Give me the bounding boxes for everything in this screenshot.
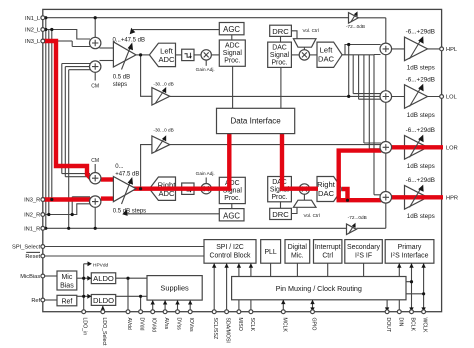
wire IN1_R rise to c2R (94, 207, 96, 228)
vol ctrl multiplier right (299, 184, 309, 194)
wire LOL mixer to amp and pin (392, 96, 442, 98)
arrowhead SCLK up (249, 263, 253, 267)
svg-text:-6...+29dB: -6...+29dB (406, 29, 435, 36)
arrowhead GPIO down (310, 307, 314, 311)
svg-text:Supplies: Supplies (160, 283, 189, 292)
svg-text:Ref: Ref (31, 298, 40, 304)
mix amp1 left -30dB (152, 87, 170, 105)
wire LDO_in rail to HPVdd (84, 264, 88, 312)
wire MISO pin to SPI block (238, 263, 240, 311)
pin label Reset with overline (25, 252, 40, 260)
PLL box (261, 240, 281, 264)
junction dot DVdd tap (139, 295, 142, 298)
bypass volume amp right -72dB (347, 223, 357, 235)
junction dot IN1_R pga tap (94, 227, 97, 230)
svg-text:DVdd: DVdd (139, 318, 145, 331)
wire bypass amp R out (356, 227, 385, 229)
vol ctrl mux right (293, 200, 316, 207)
pin terminal IN2_R (41, 213, 45, 217)
wire SDA pin to SPI block (226, 263, 228, 311)
input mixer c1R (90, 173, 101, 184)
junction dot WCLK stub (422, 292, 425, 295)
pin terminal AVdd (126, 310, 130, 314)
svg-text:DIN: DIN (397, 318, 403, 327)
wire mixer bus v5 (369, 55, 380, 149)
svg-text:LOL: LOL (446, 95, 457, 101)
LOR output amp gain arrow (410, 135, 424, 158)
wire IOVdd pin (152, 300, 154, 311)
junction dot IN2_L bus2 (50, 28, 53, 31)
arrowhead SDA up (224, 263, 228, 267)
wire CM stub left (94, 72, 96, 80)
wire Reset (43, 255, 204, 257)
output mixer LOL (380, 91, 392, 103)
wire bus vertical B (48, 30, 50, 215)
arrowhead DVss up (175, 300, 179, 304)
wire multiplier to ADC signal proc (211, 54, 219, 56)
pin terminal Reset (41, 254, 45, 258)
svg-text:LOR: LOR (446, 146, 458, 152)
wire HPL mixer to amp and pin (392, 48, 442, 50)
PGA right triangle (113, 177, 136, 205)
output mixer LOR (380, 142, 392, 154)
pin terminal HPL (440, 47, 444, 51)
Data Interface box (217, 108, 295, 133)
wire IN3_L thin extension (58, 40, 72, 42)
pin terminal IN1_L (41, 16, 45, 20)
pin terminal MCLK (281, 310, 285, 314)
DAC Right pentagon (317, 177, 342, 202)
pin terminal LDO_Select (101, 310, 105, 314)
wire cross vertical E to c2L/c1R (65, 67, 90, 177)
wire Ref pin to block (43, 299, 57, 301)
LOR output amp triangle (405, 136, 428, 160)
wire DVss pin (177, 300, 179, 311)
Pin Muxing Clock Routing box (232, 277, 406, 300)
svg-text:Vol. Ctrl: Vol. Ctrl (303, 28, 319, 33)
junction dot IN2_R bus (47, 213, 50, 216)
DRC left box (270, 25, 292, 36)
svg-text:Proc.: Proc. (224, 195, 240, 202)
svg-text:DVss: DVss (176, 318, 182, 331)
DAC Left pentagon (317, 42, 342, 67)
svg-text:MicBias: MicBias (20, 274, 40, 280)
wire mixer bus v2 (353, 55, 380, 94)
svg-text:IN2_L: IN2_L (25, 28, 40, 34)
junction dot IN2_R tap (71, 213, 74, 216)
wire DRC-L to vol ctrl mux (291, 31, 297, 39)
wire tap to mix amp2 (141, 145, 152, 189)
svg-text:1dB steps: 1dB steps (407, 65, 435, 72)
arrowhead GPIO up (310, 300, 314, 304)
svg-text:IN3_L: IN3_L (25, 39, 40, 45)
wire decimator to gain multiplier (194, 54, 201, 56)
junction dot LDO rail ALDO (82, 277, 85, 280)
svg-text:steps: steps (113, 82, 127, 88)
wire SCLK pin to SPI block (250, 263, 252, 311)
pin terminal DIN (397, 310, 401, 314)
svg-text:Bias: Bias (60, 282, 74, 289)
ALDO box (91, 273, 115, 284)
svg-text:LDO_Select: LDO_Select (101, 318, 107, 347)
HPR output amp gain arrow (410, 185, 424, 208)
wire secondary i2s stub (363, 263, 365, 276)
svg-text:Right: Right (317, 180, 336, 189)
svg-text:I2S Interface: I2S Interface (391, 252, 429, 260)
svg-text:HPVdd: HPVdd (93, 263, 109, 269)
arrowhead AVss up (163, 300, 167, 304)
svg-text:Primary: Primary (398, 244, 422, 251)
wire cross vertical G c1L lower input (72, 41, 90, 215)
AGC right box (219, 209, 244, 221)
wire mixer bus v1 (348, 45, 350, 97)
AGC-L feedback arrowhead (130, 28, 136, 35)
svg-text:1dB steps: 1dB steps (407, 163, 435, 170)
svg-text:DAC: DAC (272, 179, 287, 186)
svg-text:Gain Adj.: Gain Adj. (196, 67, 215, 72)
svg-text:HPR: HPR (446, 196, 458, 202)
arrowhead SCL up (212, 263, 216, 267)
mix amp2 right -30dB (152, 135, 170, 153)
wire CM stub right (94, 164, 96, 173)
wire IN2_L to sum c1L (43, 30, 90, 40)
pin terminal IOVdd (151, 310, 155, 314)
wire PGA-L output (134, 54, 149, 56)
PGA left triangle (113, 42, 136, 70)
pin terminal IN3_R (41, 198, 45, 202)
svg-text:IN3_R: IN3_R (24, 198, 40, 204)
junction dot IN1_L bus (44, 16, 47, 19)
wire SCL pin to SPI block (213, 263, 215, 311)
svg-text:Vol. Ctrl: Vol. Ctrl (304, 213, 320, 218)
bypass volume amp left -72dB (349, 11, 359, 23)
ADC signal proc left box (219, 40, 245, 66)
svg-text:SPI_Select: SPI_Select (12, 245, 41, 251)
svg-text:Mic.: Mic. (291, 252, 304, 259)
vol ctrl multiplier left (299, 50, 309, 60)
svg-text:Gain Adj.: Gain Adj. (196, 171, 215, 176)
wire MCLK pin (282, 300, 284, 312)
arrowhead DLDO input (87, 294, 91, 299)
svg-text:SCLK: SCLK (249, 318, 255, 332)
svg-text:Ref: Ref (61, 298, 72, 305)
svg-text:Digital: Digital (288, 244, 308, 251)
wire Left ADC to decimator (176, 54, 182, 56)
arrowhead WCLK down (421, 307, 425, 311)
red path IN3_R into c2R (43, 197, 92, 201)
vol ctrl mux left (293, 39, 316, 48)
svg-text:0...+47.5 dB: 0...+47.5 dB (113, 38, 146, 44)
wire IOVss pin (189, 300, 191, 311)
svg-text:DAC: DAC (272, 45, 287, 52)
svg-text:DLDO: DLDO (93, 296, 114, 305)
wire Ref to LDO rail (77, 295, 92, 297)
pin terminal SDA (225, 310, 229, 314)
wire mix amp1 out to LOL mixer (170, 95, 380, 97)
svg-text:WCLK: WCLK (422, 318, 428, 334)
junction dot PGA-R output on red (139, 187, 142, 190)
gain adj multiplier left (201, 50, 211, 60)
wire Left DAC out up to HPL mixer (342, 45, 381, 55)
svg-text:PLL: PLL (264, 249, 276, 256)
AGC-R feedback arrowhead (122, 210, 127, 216)
Primary I2S Interface box (385, 240, 434, 264)
output mixer HPL (380, 43, 392, 55)
wire digital mic stub (296, 263, 298, 276)
svg-text:IOVdd: IOVdd (151, 318, 157, 333)
red path IN3_L to right input mixer c1R (43, 41, 91, 179)
svg-text:-72...0dB: -72...0dB (346, 24, 365, 29)
wire interrupt stub (327, 263, 329, 276)
svg-text:SCL/SSZ: SCL/SSZ (212, 318, 218, 340)
junction dot BCLK stub (410, 280, 413, 283)
ADC Left pentagon (149, 43, 175, 66)
pin terminal IN1_R (41, 226, 45, 230)
wire bus vertical C (51, 30, 53, 200)
wire DRC-L to DAC proc L (280, 36, 282, 42)
input mixer c2L (90, 61, 101, 72)
svg-text:AVdd: AVdd (126, 318, 132, 330)
DAC signal proc left box (268, 42, 292, 67)
wire MicBias to LDO rail (77, 277, 92, 279)
wire c2L to PGA-L (100, 60, 114, 62)
DRC right box (270, 208, 292, 219)
svg-text:DAC: DAC (318, 54, 335, 63)
output mixer HPR (380, 192, 392, 204)
gain adj multiplier right (201, 184, 211, 194)
junction dot AVdd tap (126, 277, 129, 280)
wire IN2_R to sum c2R (43, 204, 90, 215)
pin terminal BCLK (410, 310, 414, 314)
wire IN1_R to bypass amp R (43, 227, 347, 229)
SPI I2C control block box (204, 240, 256, 264)
wire AGC-R gain feedback (127, 213, 219, 215)
arrowhead MCLK up (281, 300, 285, 304)
junction dot IN1_R bus1 (44, 227, 47, 230)
svg-text:DAC: DAC (318, 189, 335, 198)
svg-text:Reset: Reset (25, 254, 40, 260)
svg-text:AGC: AGC (223, 25, 240, 34)
wire AVss pin (164, 300, 166, 311)
pin terminal AVss (163, 310, 167, 314)
svg-text:-6...+29dB: -6...+29dB (406, 127, 435, 134)
svg-text:Left: Left (320, 46, 334, 55)
svg-text:Proc.: Proc. (271, 60, 287, 67)
wire mixer bus v6 HPL to HPR (374, 55, 381, 195)
wire WCLK pin to primary i2s (406, 263, 424, 311)
wire GPIO pin (312, 300, 314, 312)
red path HPR mixer to HPR pin (391, 195, 443, 199)
red path data interface down to DAC-R chain (282, 134, 318, 189)
wire LDO_Select (102, 306, 104, 312)
pin terminal SCL (212, 310, 216, 314)
red path to HPR and LOR mixers (339, 151, 382, 201)
Ref box (57, 295, 77, 306)
svg-text:Signal: Signal (270, 52, 290, 59)
svg-text:+47.5 dB: +47.5 dB (115, 171, 139, 177)
svg-text:ADC: ADC (158, 55, 175, 64)
pin terminal MISO (237, 310, 241, 314)
svg-text:0.5 dB steps: 0.5 dB steps (113, 208, 146, 214)
wire PLL stub (270, 263, 272, 276)
wire AGC-L gain feedback (133, 29, 219, 31)
wire ALDO out to supplies (116, 278, 147, 312)
red path Right DAC output fork down (342, 189, 348, 200)
DAC signal proc right box (268, 177, 292, 202)
junction dot IN3_R bus (50, 198, 53, 201)
wire IN1_L to bypass amp (43, 17, 349, 19)
Digital Mic box (285, 240, 310, 264)
svg-text:Secondary: Secondary (347, 244, 380, 251)
arrowhead LDO_Select up (101, 306, 105, 311)
AGC left box (219, 23, 244, 35)
svg-text:1dB steps: 1dB steps (407, 112, 435, 119)
svg-text:IN1_L: IN1_L (25, 16, 40, 22)
arrowhead WCLK up (421, 263, 425, 267)
pin terminal IN2_L (41, 28, 45, 32)
wire mux R to multiplier R (303, 195, 305, 201)
svg-text:-30...0 dB: -30...0 dB (153, 128, 173, 133)
pin terminal SCLK (249, 310, 253, 314)
svg-text:Proc.: Proc. (224, 58, 240, 65)
junction dot DAC-L mixer bus (347, 43, 350, 46)
Interrupt Ctrl box (314, 240, 342, 264)
svg-text:ADC: ADC (225, 43, 240, 50)
pin terminal DVss (176, 310, 180, 314)
wire DAC proc L to multiplier (291, 54, 299, 56)
svg-text:1dB steps: 1dB steps (407, 213, 435, 220)
wire DAC proc L to data interface (280, 67, 282, 108)
arrowhead DIN up (397, 263, 401, 267)
junction dot IN1_L pga tap (94, 16, 97, 19)
wire c1L to PGA-L (100, 47, 114, 49)
svg-text:HPL: HPL (446, 47, 457, 53)
wire BCLK pin to primary i2s (406, 263, 412, 311)
DLDO box (91, 295, 115, 306)
svg-text:DRC: DRC (272, 210, 289, 219)
chip boundary box (43, 9, 442, 311)
arrowhead ALDO input (87, 276, 91, 281)
pin terminal GPIO (311, 310, 315, 314)
wire cross vertical F to c2L (69, 70, 90, 229)
svg-text:SDA/MOSI: SDA/MOSI (225, 318, 231, 343)
svg-text:GPIO: GPIO (311, 318, 317, 331)
svg-text:0.5 dB: 0.5 dB (113, 75, 130, 81)
arrowhead BCLK up (409, 263, 413, 267)
svg-text:AVss: AVss (163, 318, 169, 330)
svg-text:Interrupt: Interrupt (315, 244, 341, 251)
pin terminal Ref (41, 298, 45, 302)
svg-text:-30...0 dB: -30...0 dB (153, 82, 173, 87)
HPL output amp (405, 36, 428, 61)
wire IN1_L drop to sum c1L (94, 18, 96, 38)
wire DOUT pin (386, 300, 388, 312)
pin terminal LOL (440, 95, 444, 99)
wire AGC-L to ADC proc L (231, 35, 233, 40)
svg-text:Ctrl: Ctrl (322, 252, 333, 259)
svg-text:Mic: Mic (61, 274, 72, 281)
red path c1R to PGA-R (101, 177, 115, 181)
svg-text:MISO: MISO (237, 318, 243, 331)
wire ADC proc L to data interface (232, 66, 234, 108)
svg-text:ALDO: ALDO (93, 274, 114, 283)
junction dot red fork (346, 199, 349, 202)
wire mux L to multiplier (303, 47, 305, 50)
svg-text:IN2_R: IN2_R (24, 213, 40, 219)
red path c2R to PGA-R (101, 196, 115, 200)
svg-text:BCLK: BCLK (410, 318, 416, 332)
wire bus vertical A (45, 18, 47, 229)
arrowhead IOVdd up (151, 300, 155, 304)
Mic Bias box (57, 271, 77, 290)
wire DRC-R to vol ctrl mux R (291, 207, 297, 213)
pin terminal DOUT (385, 310, 389, 314)
HPR output amp triangle (405, 186, 428, 210)
svg-text:Signal: Signal (223, 50, 243, 57)
junction dot LOL input (347, 95, 350, 98)
wire cross vertical D to c2L/c1R (62, 64, 90, 174)
pin terminal IOVss (188, 310, 192, 314)
Supplies box (147, 276, 202, 301)
ADC Right pentagon (149, 177, 176, 200)
svg-text:LDO_in: LDO_in (82, 318, 88, 336)
svg-text:IOVss: IOVss (188, 318, 194, 333)
svg-text:CM: CM (91, 84, 99, 90)
wire mix amp2 out to LOR mixer (170, 144, 381, 146)
svg-text:CM: CM (91, 158, 99, 164)
arrowhead DOUT down (385, 307, 389, 311)
svg-text:Control Block: Control Block (210, 252, 252, 259)
wire gain adj stub R (205, 178, 207, 184)
svg-text:0...: 0... (115, 164, 124, 170)
wire DRC-R to DAC proc R (280, 202, 282, 209)
svg-text:Pin Muxing / Clock Routing: Pin Muxing / Clock Routing (276, 284, 362, 293)
svg-text:DOUT: DOUT (385, 318, 391, 334)
LOL output amp (405, 84, 428, 109)
junction dot LDO rail DLDO (82, 295, 85, 298)
arrowhead BCLK down (409, 307, 413, 311)
junction dot IN1_R bus2 (67, 227, 70, 230)
wire bypass amp L out (358, 17, 385, 19)
pin terminal MicBias (41, 274, 45, 278)
red path LOR mixer to LOR pin (391, 145, 443, 149)
decimation filter right (182, 183, 194, 194)
junction dot PGA-L output (139, 53, 142, 56)
svg-text:Data Interface: Data Interface (230, 117, 281, 126)
input mixer c2R (90, 196, 101, 207)
pin terminal IN3_L (41, 39, 45, 43)
wire multiplier to Left DAC (310, 54, 317, 56)
wire bypass chain vertical through mixers (385, 18, 387, 229)
arrowhead IOVss up (188, 300, 192, 304)
wire gain adj stub L (205, 60, 207, 66)
wire mixer bus v4 (364, 55, 381, 143)
wire PGA-L tap to mix amp1 (141, 55, 152, 96)
svg-text:AGC: AGC (223, 211, 240, 220)
wire mixer bus v3 (359, 55, 381, 99)
ADC signal proc right box (219, 177, 245, 203)
arrowhead HPVdd (88, 261, 92, 266)
pin terminal WCLK (422, 310, 426, 314)
wire ADC proc R to AGC-R (231, 204, 233, 209)
svg-text:DRC: DRC (272, 27, 289, 36)
pin terminal DVdd (139, 310, 143, 314)
red path PGA-R through ADC chain up to data interface (133, 134, 230, 189)
arrowhead MISO up (237, 263, 241, 267)
junction dot IN2_L bus1 (44, 28, 47, 31)
svg-text:IN1_R: IN1_R (24, 227, 40, 233)
decimation filter left (182, 49, 194, 60)
